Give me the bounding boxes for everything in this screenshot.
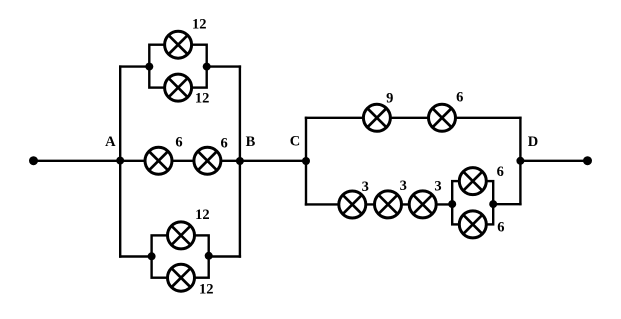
lamp 6 (middle branch, left)	[145, 147, 172, 174]
lamp 12 (bottom-left pair, upper)	[168, 222, 195, 249]
junction dot: bottom-right pair, left	[448, 200, 456, 208]
wire: bottom-left parallel loop rectangle	[152, 235, 209, 277]
svg-text:12: 12	[195, 207, 210, 223]
svg-text:6: 6	[220, 135, 227, 151]
svg-text:9: 9	[386, 90, 393, 106]
svg-text:6: 6	[497, 164, 504, 180]
svg-text:6: 6	[175, 134, 182, 150]
svg-text:6: 6	[456, 90, 463, 106]
wire: bottom-right branch, C-bus through 3,3,3 lamps to left junction	[305, 203, 452, 205]
svg-text:12: 12	[199, 281, 214, 297]
wire: top-left branch, A-bus to left junction	[119, 65, 149, 67]
lamp 6 (middle branch, right)	[194, 147, 221, 174]
node C junction dot	[302, 157, 310, 165]
junction dot: top-left pair, right	[203, 63, 211, 71]
wire: vertical bus through node A	[119, 65, 121, 257]
lamp 12 (top-left pair, lower)	[165, 74, 192, 101]
wire: bottom-left branch, right junction to B-bus	[209, 255, 241, 257]
wire: top-left branch, right junction to B-bus	[207, 65, 241, 67]
svg-text:A: A	[105, 134, 116, 150]
wire: top-right branch C to D through 9 and 6 lamps	[305, 117, 522, 119]
node A junction dot	[116, 157, 124, 165]
lamp 3 (bottom-right branch, first)	[339, 191, 366, 218]
svg-text:B: B	[246, 134, 256, 150]
node B junction dot	[236, 157, 244, 165]
svg-text:3: 3	[400, 178, 407, 194]
wire: bottom-right branch, right junction to D-bus	[493, 203, 521, 205]
junction dot: top-left pair, left	[145, 63, 153, 71]
svg-text:D: D	[528, 134, 538, 150]
lamp 12 (top-left pair, upper)	[165, 31, 192, 58]
wire: bottom-right parallel loop rectangle	[452, 181, 493, 224]
svg-text:C: C	[290, 134, 300, 150]
junction dot: bottom-left pair, left	[148, 252, 156, 260]
svg-text:6: 6	[497, 220, 504, 236]
wire: bottom-left branch, A-bus to left junction	[119, 255, 152, 257]
lamp 6 (bottom-right pair, upper)	[459, 168, 486, 195]
lamp 6 (top-right branch, right)	[429, 104, 456, 131]
lamp 3 (bottom-right branch, second)	[375, 191, 402, 218]
node D junction dot	[516, 157, 524, 165]
svg-text:3: 3	[362, 179, 369, 195]
junction dot: bottom-left pair, right	[205, 252, 213, 260]
lamp 12 (bottom-left pair, lower)	[168, 264, 195, 291]
svg-text:12: 12	[195, 91, 210, 107]
svg-text:12: 12	[192, 17, 207, 33]
right terminal dot	[583, 156, 592, 165]
wire: vertical bus through node C	[305, 117, 307, 206]
left terminal dot	[29, 156, 38, 165]
wire: top-left parallel loop rectangle	[149, 45, 206, 88]
wire: main line from left terminal through A and B to C	[34, 160, 307, 162]
lamp 6 (bottom-right pair, lower)	[459, 211, 486, 238]
junction dot: bottom-right pair, right	[489, 200, 497, 208]
lamp 3 (bottom-right branch, third)	[409, 191, 436, 218]
svg-text:3: 3	[434, 179, 441, 195]
wire: D to right terminal	[520, 160, 587, 162]
wire: vertical bus through node D	[519, 117, 521, 206]
wire: vertical bus through node B	[239, 65, 241, 257]
lamp 9 (top-right branch, left)	[363, 104, 390, 131]
